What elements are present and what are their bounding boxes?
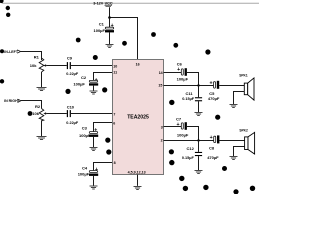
wire C8 to SPK2 xyxy=(219,140,244,142)
svg-text:100µF: 100µF xyxy=(78,172,90,177)
capacitor C12 xyxy=(182,141,202,171)
node IN RIGHT connector xyxy=(4,99,21,103)
wire IN-LEFT to R1 xyxy=(21,52,42,61)
svg-text:C10: C10 xyxy=(67,104,75,109)
svg-text:VCC: VCC xyxy=(105,1,113,5)
wire R1 wiper to C9 xyxy=(46,65,67,67)
svg-text:100µF: 100µF xyxy=(94,28,106,33)
ground (C11) xyxy=(195,113,203,116)
svg-text:+: + xyxy=(177,67,180,73)
svg-text:SPK1: SPK1 xyxy=(239,74,248,78)
wire pin 14 to C6 xyxy=(164,72,182,74)
svg-text:R1: R1 xyxy=(34,54,40,59)
ground (R1) xyxy=(37,88,47,91)
svg-text:+: + xyxy=(210,135,213,141)
capacitor C6 xyxy=(177,62,189,82)
capacitor C4 xyxy=(78,165,99,185)
decorative scatter dots xyxy=(0,0,255,194)
potentiometer R1 xyxy=(30,54,46,87)
ground (SPK2) xyxy=(230,157,238,160)
wire IC bottom pin to ground xyxy=(137,175,139,186)
wire C9 to pin 10 xyxy=(71,65,113,67)
ground (C3) xyxy=(90,148,98,151)
svg-text:0.22µF: 0.22µF xyxy=(66,72,79,76)
svg-text:C12: C12 xyxy=(187,146,195,151)
svg-text:0.15µF: 0.15µF xyxy=(182,97,195,101)
svg-text:SPK2: SPK2 xyxy=(239,129,248,133)
svg-text:R2: R2 xyxy=(35,104,41,109)
svg-text:C2: C2 xyxy=(81,75,87,80)
wire pin 8 branch xyxy=(94,163,113,171)
capacitor C11 xyxy=(182,86,202,113)
capacitor C9 xyxy=(66,56,79,76)
ground (SPK1) xyxy=(230,105,238,108)
capacitor C7 xyxy=(176,117,189,138)
svg-text:C4: C4 xyxy=(82,165,88,170)
wire C5 to SPK1 xyxy=(219,85,244,87)
svg-text:100µF: 100µF xyxy=(79,133,91,138)
capacitor C5 xyxy=(208,80,220,101)
svg-text:+: + xyxy=(177,122,180,128)
wire pin 2 to C8 xyxy=(164,140,214,142)
svg-text:C11: C11 xyxy=(186,91,194,96)
svg-text:3-12V: 3-12V xyxy=(93,1,104,5)
wire VCC to junction xyxy=(109,7,111,17)
wire R2 wiper to C10 xyxy=(46,113,67,115)
svg-text:10k: 10k xyxy=(32,111,39,116)
svg-text:0.22µF: 0.22µF xyxy=(66,121,79,125)
wire pin 15 to C5 xyxy=(164,85,214,87)
svg-text:C8: C8 xyxy=(209,145,215,150)
node junction output 2 xyxy=(197,139,199,141)
svg-text:100µF: 100µF xyxy=(177,77,189,82)
border frame top line xyxy=(2,2,259,4)
wire pin 6 branch xyxy=(94,123,113,132)
node junction output 1 xyxy=(197,84,199,86)
svg-text:2: 2 xyxy=(161,138,163,142)
svg-text:C7: C7 xyxy=(176,117,182,122)
svg-text:C1: C1 xyxy=(99,21,105,26)
capacitor C10 xyxy=(66,104,79,125)
wire C7 to output node 2 xyxy=(187,127,199,141)
ground (C12) xyxy=(195,171,203,174)
node junction VCC xyxy=(108,16,111,19)
svg-text:TEA2025: TEA2025 xyxy=(127,115,149,121)
op-amp U1 TEA2025 IC body xyxy=(113,60,164,175)
ground (C2) xyxy=(90,91,98,94)
svg-text:470µF: 470µF xyxy=(208,96,220,101)
capacitor C1 xyxy=(94,18,115,45)
node IN-LEFT connector xyxy=(0,49,21,54)
loudspeaker SPK2 xyxy=(234,129,255,157)
svg-text:14: 14 xyxy=(159,71,163,75)
ground (IC) xyxy=(134,187,142,190)
svg-text:+: + xyxy=(210,80,213,86)
wire pin 11 branch xyxy=(94,73,113,81)
wire pin 3 to C7 xyxy=(164,126,182,128)
ground (C4) xyxy=(90,186,98,189)
wire C6 to output node 1 xyxy=(187,73,199,86)
loudspeaker SPK1 xyxy=(234,74,255,105)
potentiometer R2 xyxy=(32,104,46,136)
svg-text:C6: C6 xyxy=(177,62,183,67)
svg-text:10k: 10k xyxy=(30,63,37,68)
wire junction to pin 16 xyxy=(110,18,138,60)
wire C10 to pin 7 xyxy=(71,113,113,115)
svg-text:C3: C3 xyxy=(82,125,88,130)
svg-text:10: 10 xyxy=(113,64,117,68)
wire IN RIGHT to R2 xyxy=(21,101,42,109)
node VCC label xyxy=(93,1,113,6)
svg-text:100µF: 100µF xyxy=(73,82,85,87)
ground (R2) xyxy=(37,137,47,140)
capacitor C2 xyxy=(73,75,98,91)
ground (C1) xyxy=(106,45,114,48)
svg-text:8: 8 xyxy=(114,161,116,165)
svg-text:IN-LEFT: IN-LEFT xyxy=(4,50,19,54)
capacitor C3 xyxy=(79,125,98,147)
svg-text:100µF: 100µF xyxy=(177,132,189,137)
svg-text:15: 15 xyxy=(158,84,162,88)
svg-text:0.15µF: 0.15µF xyxy=(182,156,195,160)
svg-text:3: 3 xyxy=(161,126,163,130)
capacitor C8 xyxy=(207,135,219,160)
svg-text:16: 16 xyxy=(136,63,140,67)
svg-text:C5: C5 xyxy=(209,91,215,96)
svg-text:6: 6 xyxy=(113,122,115,126)
svg-text:470µF: 470µF xyxy=(207,155,219,160)
svg-text:C9: C9 xyxy=(67,56,73,61)
svg-text:7: 7 xyxy=(113,113,115,117)
svg-text:4,5,9,12,13: 4,5,9,12,13 xyxy=(128,170,146,174)
svg-text:11: 11 xyxy=(113,71,117,75)
